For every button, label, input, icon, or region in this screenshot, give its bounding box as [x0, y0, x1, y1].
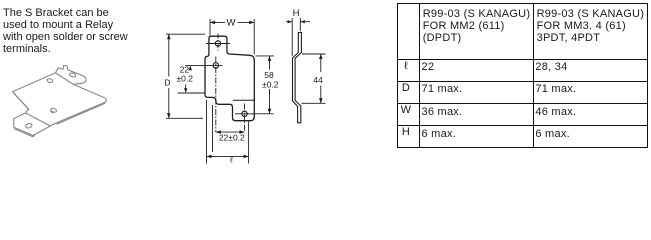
svg-text:D: D	[164, 78, 170, 88]
dimension W	[210, 19, 254, 55]
hole centre lines	[185, 34, 273, 133]
flange bottom thickness	[14, 129, 35, 137]
dimension D	[166, 34, 205, 118]
plate lower-right edge thickness	[57, 103, 106, 124]
dimension l (bottom)	[207, 100, 249, 164]
front view holes	[213, 41, 247, 117]
svg-text:22±0.2: 22±0.2	[219, 132, 245, 142]
dimension 44	[302, 54, 326, 103]
hole tab	[69, 72, 76, 77]
hole flange	[25, 123, 32, 129]
hole plate upper	[47, 78, 53, 83]
front view outline	[205, 36, 254, 121]
S bracket isometric pictorial	[13, 65, 107, 136]
svg-text:44: 44	[313, 75, 323, 85]
svg-text:ℓ: ℓ	[229, 155, 233, 165]
plate left lower edge thickness	[14, 93, 29, 110]
dimension 22 +/-0.2 (bottom)	[213, 105, 245, 152]
side view profile	[293, 32, 302, 122]
dimension H	[286, 18, 310, 56]
svg-text:W: W	[227, 17, 236, 28]
tab fold line	[56, 73, 74, 85]
dimension labels	[164, 8, 323, 164]
bracket silhouette	[13, 65, 107, 135]
bottom tab fold line	[233, 99, 255, 101]
hole plate lower	[50, 108, 57, 113]
svg-text:H: H	[293, 8, 300, 19]
svg-text:±0.2: ±0.2	[262, 79, 279, 89]
dimension 22 +/-0.2 (left)	[178, 85, 205, 94]
flange bend line	[26, 113, 51, 126]
svg-text:±0.2: ±0.2	[176, 74, 193, 84]
dimension 58 +/-0.2 (right)	[256, 56, 275, 114]
